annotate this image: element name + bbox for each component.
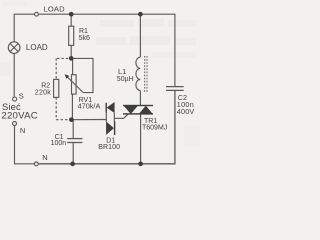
triac TR1 top bar	[123, 105, 153, 106]
svg-text:L1: L1	[118, 67, 126, 76]
resistor R2 220k dashed branch	[56, 58, 69, 119]
wire diac right link	[113, 113, 115, 122]
svg-text:LOAD: LOAD	[44, 5, 65, 14]
node B junction dot	[69, 117, 74, 122]
triac TR1 right triangle	[139, 106, 153, 115]
wire diac left link	[105, 113, 107, 122]
svg-text:5k6: 5k6	[79, 35, 90, 42]
RV1 wiper arrow	[66, 76, 83, 93]
wire triac MT1 to bottom rail	[140, 114, 142, 164]
lamp LOAD	[8, 42, 20, 54]
wire top rail left segment	[14, 14, 34, 42]
inductor L1 core dashed	[144, 56, 146, 92]
svg-text:100n: 100n	[51, 140, 67, 147]
svg-text:S: S	[19, 91, 24, 100]
svg-text:LOAD: LOAD	[26, 43, 48, 52]
wire gate row right	[114, 114, 128, 119]
svg-text:470k/A: 470k/A	[78, 101, 101, 110]
svg-text:N: N	[42, 153, 47, 162]
wire rail to R1	[70, 14, 72, 26]
inductor L1 50uH coil	[136, 57, 140, 90]
junction dot rail/L1	[138, 12, 143, 17]
capacitor C1 100n	[67, 138, 82, 140]
svg-text:220k: 220k	[35, 89, 51, 96]
junction dot TR1/bottom rail	[138, 161, 143, 166]
wire N terminal to bottom rail	[15, 126, 35, 164]
terminal S	[13, 97, 17, 101]
triac TR1 bottom bar	[123, 113, 153, 114]
wire RV1 bottom stub	[71, 94, 73, 120]
resistor R2 body	[54, 79, 59, 97]
potentiometer RV1 470k/A	[72, 75, 77, 94]
wire L1 top	[139, 14, 141, 57]
scan ghost smudges	[0, 1, 200, 146]
wire gate row left	[71, 119, 106, 121]
resistor R1 5k6	[69, 26, 74, 45]
wire node B to C1	[72, 120, 74, 139]
svg-text:220VAC: 220VAC	[1, 111, 38, 122]
terminal N	[13, 122, 17, 126]
terminal circle N (bottom rail)	[34, 162, 38, 166]
diac D1 upper bar	[106, 103, 107, 113]
diac D1 lower triangle	[106, 121, 114, 134]
svg-text:50µH: 50µH	[117, 76, 134, 83]
diac D1 upper triangle	[107, 102, 115, 113]
RV1 arrowhead	[65, 74, 70, 79]
svg-text:BR100: BR100	[98, 144, 120, 151]
capacitor C2 100n 400V	[166, 86, 184, 88]
wire C1 to bottom rail	[72, 143, 74, 164]
svg-text:T609MJ: T609MJ	[142, 124, 167, 131]
junction dot rail/R1	[69, 12, 74, 17]
wire L1 to triac MT2	[139, 91, 141, 106]
svg-text:N: N	[20, 126, 25, 135]
wire RV1 top stub	[72, 58, 74, 74]
triac TR1 left triangle	[123, 105, 138, 114]
wire R1 to node A	[70, 45, 72, 58]
svg-text:400V: 400V	[177, 107, 195, 116]
wire bottom rail	[38, 90, 175, 163]
wire top rail right segment	[38, 14, 175, 86]
terminal circle LOAD (top)	[35, 12, 39, 16]
wire node A to wiper loop	[71, 58, 93, 92]
wire lamp to S terminal	[13, 53, 15, 97]
diac D1 lower bar	[114, 121, 115, 135]
node A junction dot	[69, 56, 74, 61]
svg-text:R1: R1	[79, 28, 88, 35]
junction dot C1/bottom rail	[70, 162, 75, 167]
